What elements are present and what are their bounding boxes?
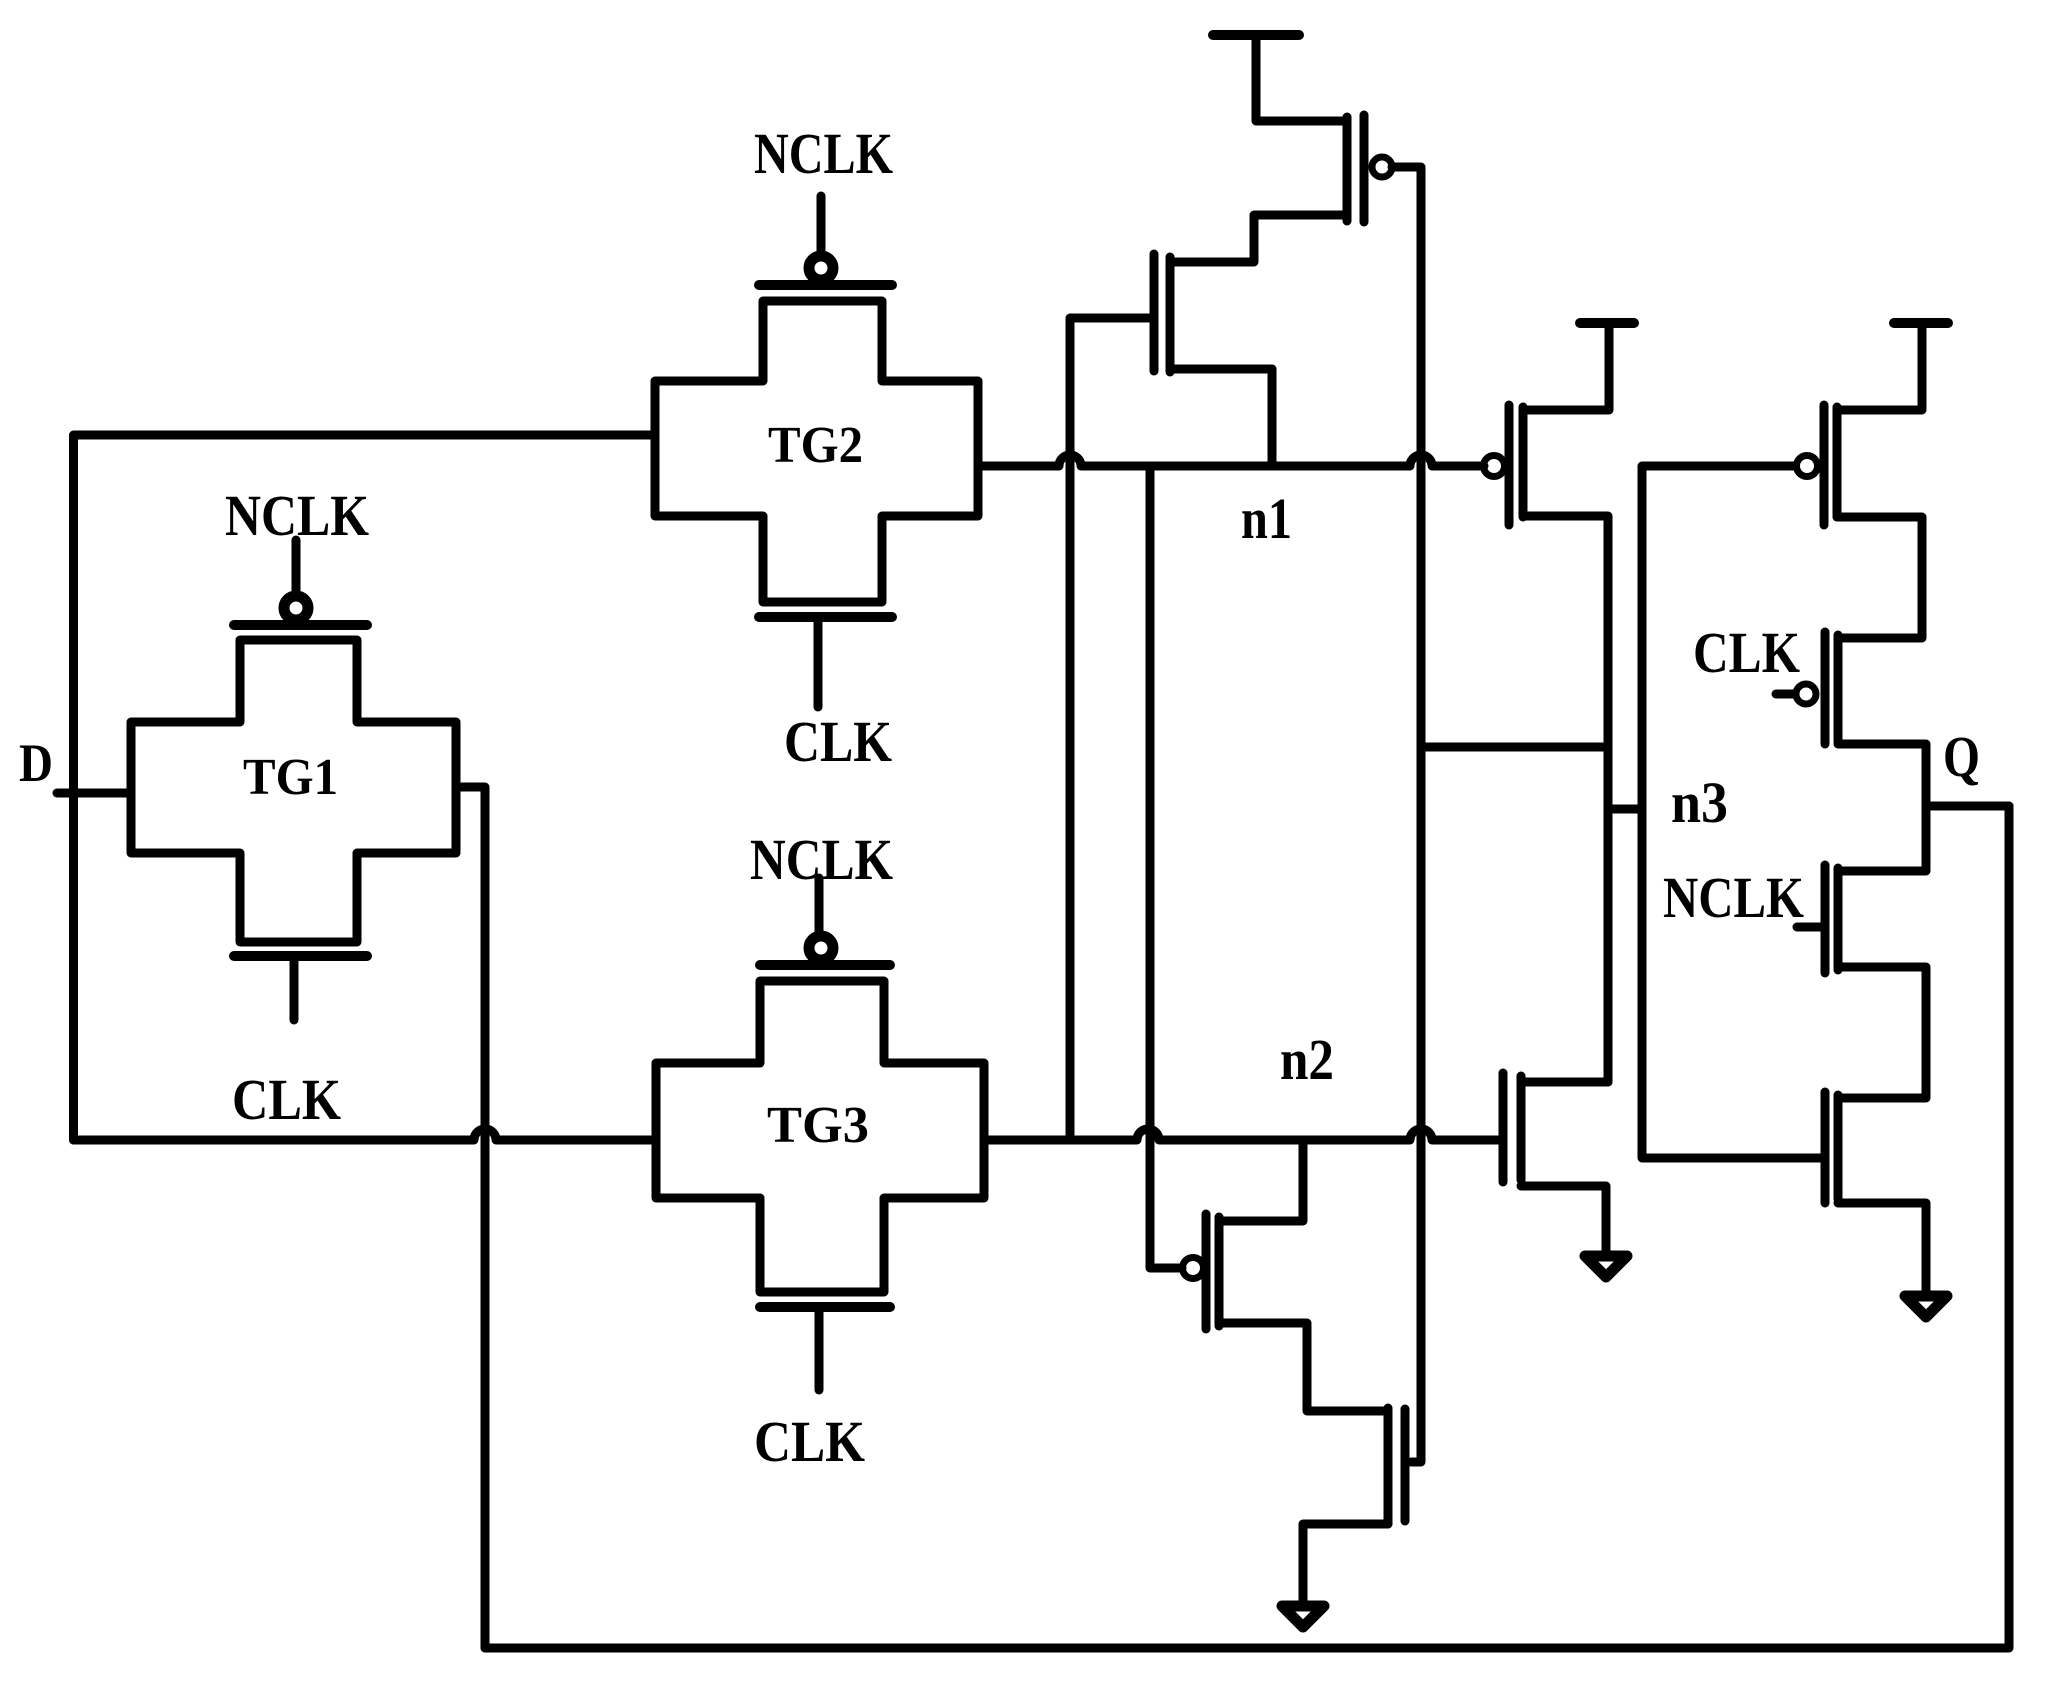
node D input stub [57, 789, 131, 798]
wire Q3 drain down to Q4 drain [1523, 516, 1608, 1082]
wire TG1 output to feedback vertical [456, 787, 485, 1648]
svg-text:n1: n1 [1241, 486, 1292, 551]
svg-text:Q: Q [1943, 724, 1980, 789]
svg-text:n2: n2 [1280, 1027, 1334, 1092]
wire branch from gate line to middle inverter output [1421, 743, 1608, 752]
wire TG2 NCLK gate stem [817, 196, 826, 251]
wire Q9 drain step down to Q10 drain [1219, 1323, 1388, 1411]
transistor Q9 PMOS channel bar [1215, 1217, 1224, 1326]
wire top-inverter NMOS source down to n1 [1268, 369, 1277, 466]
svg-text:NCLK: NCLK [225, 483, 369, 548]
transmission gate TG3 cross body [656, 981, 984, 1292]
transistor Q7 NCLK NMOS channel bar [1834, 868, 1843, 970]
wire TG3 CLK gate stem [815, 1312, 824, 1390]
wire Q2 source to n1 [1170, 365, 1272, 374]
wire D-loop top horizontal from left vertical to TG2 left arm [74, 435, 656, 1140]
wire Q8 source to ground [1838, 1203, 1926, 1291]
wire VDD3 stem to Q5 source [1837, 323, 1922, 410]
svg-text:CLK: CLK [784, 709, 892, 774]
wire TG1 CLK gate stem [290, 961, 299, 1020]
ground symbol below output stage [1905, 1296, 1947, 1317]
TG1 bottom gate bar [234, 951, 367, 961]
transistor Q4 NMOS gate bar (middle inverter) [1499, 1073, 1508, 1182]
wire cross-couple B: n1 down to PMOS gate of lower inverter [1150, 466, 1182, 1268]
wire bottom-left horizontal with hop over TG1 output vertical, to TG3 left arm [74, 1129, 657, 1140]
wire Q10 source to ground [1303, 1524, 1388, 1601]
wire VDD1 stem to PMOS source [1256, 35, 1347, 121]
transistor Q5 output PMOS gate bar [1820, 405, 1829, 525]
transmission gate TG2 cross body [655, 301, 978, 602]
power VDD2 supply bar [1580, 318, 1634, 328]
transistor Q8 output NMOS channel bar [1834, 1095, 1843, 1199]
wire TG1 NCLK gate stem [292, 540, 301, 591]
transistor Q1 PMOS channel bar [1343, 117, 1352, 221]
wire Q6 drain to Q output node [1838, 744, 1926, 871]
wire VDD2 stem to Q3 source [1523, 323, 1609, 410]
transistor Q1 PMOS gate bar [1360, 115, 1369, 222]
power VDD3 supply bar [1894, 318, 1948, 328]
transistor Q9 PMOS gate bar [1202, 1214, 1211, 1329]
transistor Q6 CLK PMOS gate bar [1821, 632, 1830, 744]
wire Q6 CLK gate stub [1776, 690, 1793, 699]
transistor Q10 NMOS channel bar [1384, 1408, 1393, 1524]
transistor Q6 CLK PMOS channel bar [1834, 635, 1843, 741]
wire n3 stub to middle inverter output [1608, 805, 1642, 814]
svg-text:TG3: TG3 [767, 1097, 869, 1154]
wire bottom feedback line to Q [485, 806, 2009, 1648]
transistor Q2 NMOS gate bar [1150, 254, 1159, 371]
transistor Q3 PMOS gate bubble (middle inverter) [1484, 456, 1505, 477]
transistor Q5 output PMOS channel bar [1833, 407, 1842, 517]
svg-text:TG1: TG1 [243, 749, 338, 806]
wire gate line from top PMOS bubble down to bottom NMOS gate [1392, 167, 1421, 1462]
wire Q9 source up to n2 [1219, 1140, 1303, 1221]
transistor Q5 gate bubble [1797, 456, 1818, 477]
transistor Q3 PMOS gate bar [1505, 405, 1514, 525]
wire Q output stub [1926, 802, 2009, 811]
svg-text:CLK: CLK [232, 1067, 341, 1132]
transistor Q8 output NMOS gate bar [1821, 1092, 1830, 1203]
transistor Q6 gate bubble [1796, 684, 1816, 704]
svg-text:CLK: CLK [754, 1409, 865, 1474]
transistor Q2 NMOS channel bar [1166, 257, 1175, 372]
TG1 gate bubble (PMOS side) [284, 596, 308, 620]
transistor Q3 PMOS channel bar [1519, 407, 1528, 517]
svg-text:CLK: CLK [1693, 620, 1800, 685]
node n1 wire from TG2 output with hops, to inverter PMOS bubble [978, 455, 1484, 466]
TG3 top gate bar [760, 960, 890, 970]
transistor Q1 gate bubble [1372, 157, 1392, 177]
wire Q7 source down to Q8 drain [1838, 967, 1926, 1098]
wire Q7 NCLK gate stub [1797, 923, 1822, 932]
wire TG2 CLK gate stem [814, 622, 823, 707]
transmission gate TG1 cross body [131, 640, 456, 942]
transistor Q9 PMOS gate bubble (lower latch inverter) [1183, 1258, 1204, 1279]
node n2 wire from TG3 output with hops, to inverter NMOS gate [984, 1129, 1499, 1140]
ground symbol below lower latch [1282, 1606, 1324, 1627]
power VDD1 supply bar [1213, 30, 1299, 40]
TG3 gate bubble [809, 936, 833, 960]
svg-text:NCLK: NCLK [750, 827, 893, 892]
wire Q1 drain step to Q2 drain [1170, 215, 1347, 262]
transistor Q4 NMOS channel bar [1517, 1076, 1526, 1180]
ground symbol below middle inverter [1585, 1256, 1627, 1277]
TG3 bottom gate bar [760, 1302, 890, 1312]
wire Q4 source to ground [1521, 1186, 1606, 1251]
wire TG3 NCLK gate stem [815, 878, 824, 931]
svg-text:NCLK: NCLK [754, 121, 893, 186]
node n3 wire: output PMOS gate, down, to output NMOS gate [1642, 466, 1822, 1158]
svg-text:NCLK: NCLK [1663, 865, 1804, 930]
TG2 gate bubble [809, 256, 833, 280]
svg-text:TG2: TG2 [768, 417, 863, 474]
TG2 bottom gate bar [759, 612, 892, 622]
wire Q5 drain down to Q6 source [1837, 517, 1922, 638]
svg-text:n3: n3 [1671, 770, 1728, 835]
transistor Q7 NCLK NMOS gate bar [1821, 865, 1830, 973]
transistor Q10 NMOS gate bar [1401, 1409, 1410, 1521]
TG1 top gate bar [234, 620, 367, 630]
svg-text:D: D [19, 733, 53, 793]
wire Q4 drain [1521, 1078, 1608, 1087]
TG2 top gate bar [759, 280, 892, 290]
wire cross-couple A: NMOS gate of top inverter down to n2 [1070, 318, 1150, 1140]
